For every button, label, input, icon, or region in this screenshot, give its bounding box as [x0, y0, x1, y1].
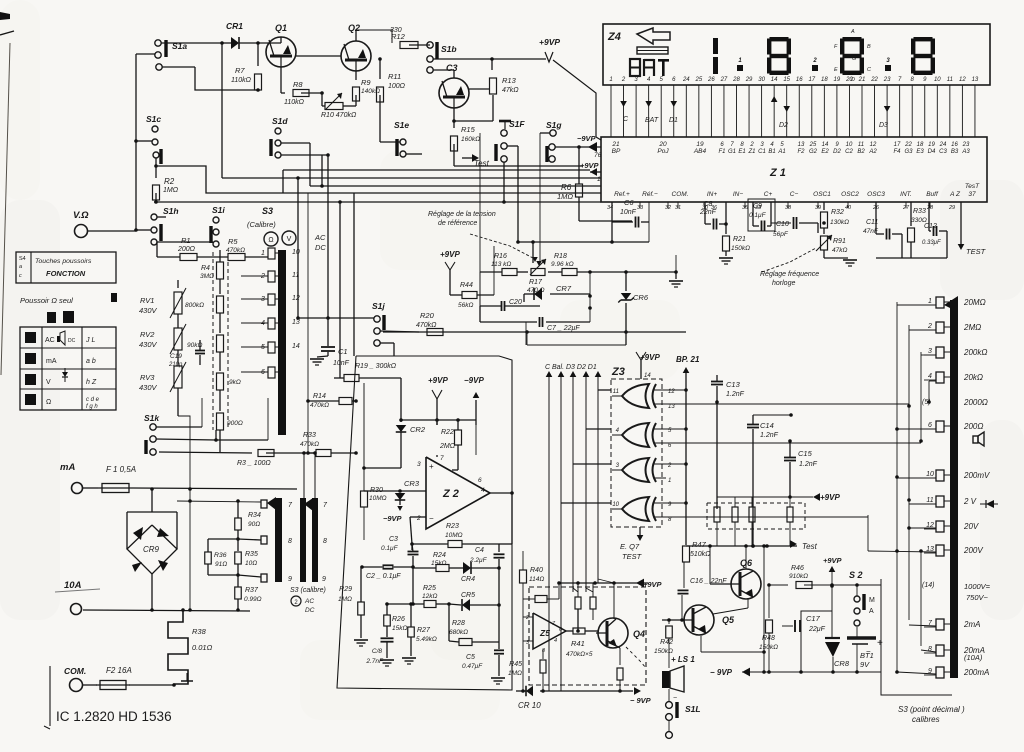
svg-text:20: 20	[658, 141, 667, 148]
svg-text:C14: C14	[760, 421, 774, 430]
svg-text:20: 20	[845, 77, 853, 83]
svg-text:R2: R2	[164, 177, 175, 186]
svg-text:8: 8	[288, 538, 292, 545]
svg-text:E. Q7: E. Q7	[620, 542, 640, 551]
svg-text:FONCTION: FONCTION	[46, 269, 86, 278]
svg-text:800kΩ: 800kΩ	[185, 302, 204, 309]
svg-text:R40: R40	[530, 567, 543, 574]
svg-text:R30: R30	[370, 487, 383, 494]
svg-text:R36: R36	[214, 552, 227, 559]
svg-text:19: 19	[696, 141, 704, 148]
svg-text:C15: C15	[798, 449, 813, 458]
svg-text:R38: R38	[192, 627, 207, 636]
svg-text:+: +	[429, 462, 434, 471]
svg-text:F 1 0,5A: F 1 0,5A	[106, 465, 136, 474]
svg-text:Touches poussoirs: Touches poussoirs	[35, 258, 92, 265]
svg-text:150kΩ: 150kΩ	[759, 644, 778, 651]
svg-text:BP: BP	[612, 148, 621, 155]
svg-text:114Ω: 114Ω	[529, 576, 544, 583]
svg-text:R33: R33	[303, 432, 316, 439]
svg-text:F4: F4	[893, 149, 901, 155]
svg-text:0.99Ω: 0.99Ω	[244, 596, 262, 603]
svg-text:Réglage fréquence: Réglage fréquence	[760, 271, 819, 278]
svg-text:26: 26	[707, 77, 715, 83]
svg-text:900Ω: 900Ω	[227, 420, 243, 427]
svg-text:R29: R29	[339, 586, 352, 593]
svg-text:7: 7	[440, 455, 444, 462]
svg-text:D3: D3	[879, 122, 888, 129]
svg-text:S1k: S1k	[144, 413, 160, 423]
svg-text:CR5: CR5	[461, 592, 475, 599]
svg-text:330: 330	[390, 27, 402, 34]
svg-text:Ref.+: Ref.+	[614, 191, 630, 198]
svg-text:2: 2	[927, 323, 932, 330]
svg-text:29: 29	[745, 77, 753, 83]
svg-text:(14): (14)	[922, 582, 934, 589]
svg-text:C/8: C/8	[372, 648, 383, 655]
svg-text:56kΩ: 56kΩ	[458, 302, 473, 309]
svg-text:12: 12	[292, 295, 300, 302]
svg-text:R44: R44	[460, 282, 473, 289]
svg-text:2mA: 2mA	[963, 620, 980, 629]
svg-text:17: 17	[808, 77, 815, 83]
svg-text:14: 14	[771, 77, 778, 83]
svg-text:R19 _ 300kΩ: R19 _ 300kΩ	[355, 363, 397, 370]
svg-text:IN+: IN+	[707, 191, 718, 198]
svg-text:C5: C5	[466, 654, 475, 661]
svg-text:1MΩ: 1MΩ	[508, 670, 522, 677]
svg-text:A: A	[850, 29, 855, 35]
svg-text:F1: F1	[718, 149, 725, 155]
svg-text:0.47μF: 0.47μF	[462, 663, 483, 670]
svg-text:200kΩ: 200kΩ	[963, 348, 987, 357]
svg-text:2: 2	[525, 615, 529, 621]
svg-text:AB4: AB4	[693, 148, 707, 155]
svg-text:140kΩ: 140kΩ	[361, 88, 380, 95]
svg-text:76: 76	[594, 152, 602, 159]
svg-text:C3: C3	[446, 63, 458, 73]
svg-text:+9VP: +9VP	[539, 37, 560, 47]
svg-text:−9VP: −9VP	[464, 376, 484, 385]
svg-text:R21: R21	[733, 236, 746, 243]
svg-text:9: 9	[322, 576, 326, 583]
svg-text:R22: R22	[441, 429, 454, 436]
svg-text:10Ω: 10Ω	[245, 560, 257, 567]
svg-text:C1: C1	[758, 149, 766, 155]
svg-text:0.01Ω: 0.01Ω	[192, 643, 213, 652]
svg-text:2MΩ: 2MΩ	[963, 323, 981, 332]
svg-text:11: 11	[292, 272, 299, 279]
svg-text:(10A): (10A)	[964, 653, 983, 662]
svg-text:c d e: c d e	[86, 397, 100, 403]
svg-text:D2: D2	[833, 149, 841, 155]
svg-text:C4: C4	[475, 547, 484, 554]
svg-text:S1g: S1g	[546, 120, 562, 130]
svg-text:AC: AC	[45, 337, 55, 344]
svg-text:30: 30	[758, 77, 765, 83]
svg-text:2 V: 2 V	[963, 497, 977, 506]
svg-text:18: 18	[917, 142, 924, 148]
svg-text:110kΩ: 110kΩ	[231, 77, 252, 84]
svg-text:100Ω: 100Ω	[388, 83, 406, 90]
svg-text:S4: S4	[19, 256, 26, 262]
svg-text:C1: C1	[338, 347, 348, 356]
svg-text:1.2nF: 1.2nF	[760, 432, 779, 439]
svg-text:Q5: Q5	[722, 615, 735, 625]
svg-text:20MΩ: 20MΩ	[963, 298, 986, 307]
svg-text:−: −	[673, 695, 677, 702]
svg-text:C9: C9	[753, 203, 762, 210]
svg-text:18: 18	[821, 77, 828, 83]
svg-text:10MΩ: 10MΩ	[445, 532, 463, 539]
svg-text:S1c: S1c	[146, 114, 161, 124]
svg-text:28: 28	[732, 77, 740, 83]
svg-text:+9VP: +9VP	[823, 556, 843, 565]
svg-text:Réf.−: Réf.−	[642, 191, 658, 198]
svg-text:G2: G2	[809, 149, 818, 155]
svg-text:R9: R9	[361, 78, 371, 87]
svg-text:5: 5	[261, 344, 265, 351]
svg-text:E: E	[834, 67, 838, 73]
svg-text:Z3: Z3	[611, 366, 625, 378]
svg-text:110kΩ: 110kΩ	[284, 99, 305, 106]
svg-text:29: 29	[948, 205, 955, 211]
svg-text:R25: R25	[423, 585, 436, 592]
svg-text:13: 13	[798, 142, 805, 148]
svg-text:−9VP: −9VP	[577, 134, 597, 143]
svg-text:S3: S3	[262, 206, 273, 216]
svg-text:calibres: calibres	[912, 715, 940, 724]
svg-text:DC: DC	[68, 338, 76, 344]
svg-text:CR4: CR4	[461, 576, 475, 583]
svg-text:C2: C2	[845, 149, 853, 155]
svg-text:14: 14	[292, 343, 300, 350]
svg-text:S3 (calibre): S3 (calibre)	[290, 587, 326, 594]
svg-text:OSC2: OSC2	[841, 191, 859, 198]
svg-text:R13: R13	[502, 76, 517, 85]
svg-text:CR8: CR8	[834, 659, 850, 668]
svg-text:3: 3	[261, 296, 265, 303]
svg-text:COM.: COM.	[672, 191, 689, 198]
svg-text:4: 4	[554, 638, 557, 644]
svg-text:S1L: S1L	[685, 704, 701, 714]
svg-text:910kΩ: 910kΩ	[789, 573, 808, 580]
svg-text:4: 4	[928, 373, 932, 380]
svg-text:R41: R41	[571, 639, 585, 648]
svg-text:A: A	[869, 608, 874, 615]
svg-text:C Bal. D3 D2 D1: C Bal. D3 D2 D1	[545, 364, 597, 371]
svg-text:V.Ω: V.Ω	[73, 210, 89, 221]
svg-text:−: −	[429, 514, 434, 523]
svg-text:C3: C3	[939, 149, 947, 155]
svg-text:2000Ω: 2000Ω	[963, 398, 988, 407]
svg-text:2: 2	[260, 273, 265, 280]
svg-text:23: 23	[883, 77, 891, 83]
svg-text:40: 40	[845, 205, 852, 211]
svg-text:R27: R27	[417, 627, 431, 634]
svg-text:C3: C3	[389, 536, 398, 543]
svg-text:750V~: 750V~	[966, 593, 989, 602]
svg-text:BP. 21: BP. 21	[676, 355, 700, 364]
svg-text:1MΩ: 1MΩ	[557, 192, 573, 201]
svg-text:2: 2	[749, 142, 754, 148]
svg-text:2: 2	[416, 515, 421, 522]
svg-text:S1d: S1d	[272, 116, 288, 126]
svg-text:Buff: Buff	[926, 191, 939, 198]
svg-text:TEST: TEST	[622, 552, 643, 561]
svg-text:Z 1: Z 1	[769, 167, 786, 179]
svg-text:R17: R17	[529, 279, 543, 286]
svg-text:S3 (point décimal ): S3 (point décimal )	[898, 705, 965, 714]
svg-text:10: 10	[292, 249, 300, 256]
svg-text:9.96 kΩ: 9.96 kΩ	[551, 261, 574, 268]
svg-text:0.33μF: 0.33μF	[922, 240, 941, 246]
svg-text:+: +	[877, 638, 883, 649]
svg-text:430V: 430V	[139, 306, 158, 315]
svg-text:430V: 430V	[139, 383, 158, 392]
svg-text:0.1μF: 0.1μF	[381, 545, 399, 552]
svg-text:470kΩ×5: 470kΩ×5	[566, 651, 593, 658]
svg-text:470kΩ: 470kΩ	[310, 402, 329, 409]
svg-text:16: 16	[951, 142, 958, 148]
svg-text:47kΩ: 47kΩ	[502, 87, 519, 94]
svg-text:BT1: BT1	[860, 651, 874, 660]
svg-text:9: 9	[288, 576, 292, 583]
svg-text:C−: C−	[790, 191, 799, 198]
svg-text:14: 14	[644, 373, 651, 379]
svg-text:13: 13	[972, 77, 979, 83]
svg-text:G: G	[852, 56, 857, 62]
svg-text:R16: R16	[494, 253, 507, 260]
svg-text:a: a	[19, 264, 22, 270]
svg-text:E2: E2	[821, 149, 829, 155]
svg-text:1: 1	[261, 250, 265, 257]
svg-text:Z5: Z5	[539, 628, 550, 638]
svg-text:10nF: 10nF	[333, 360, 350, 367]
svg-text:S1e: S1e	[394, 120, 409, 130]
svg-text:E1: E1	[738, 149, 745, 155]
svg-text:c: c	[19, 273, 22, 279]
svg-text:14: 14	[822, 142, 829, 148]
svg-text:510kΩ: 510kΩ	[690, 551, 711, 558]
svg-text:B2: B2	[857, 149, 865, 155]
svg-text:R32: R32	[831, 209, 844, 216]
svg-text:0.1μF: 0.1μF	[749, 212, 767, 219]
svg-text:RV1: RV1	[140, 296, 154, 305]
svg-text:F2 16A: F2 16A	[106, 666, 132, 675]
svg-text:R15: R15	[461, 125, 476, 134]
svg-text:D4: D4	[928, 149, 936, 155]
svg-text:R11: R11	[388, 72, 401, 81]
svg-text:+9VP: +9VP	[643, 580, 663, 589]
svg-text:90Ω: 90Ω	[248, 521, 260, 528]
svg-text:R8: R8	[293, 80, 303, 89]
svg-text:C7 _ 22μF: C7 _ 22μF	[547, 325, 580, 332]
svg-text:+9VP: +9VP	[428, 376, 448, 385]
svg-text:R14: R14	[313, 393, 326, 400]
svg-text:OSC1: OSC1	[813, 191, 831, 198]
svg-text:200mV: 200mV	[963, 471, 990, 480]
svg-text:R7: R7	[235, 66, 245, 75]
svg-text:10: 10	[926, 471, 934, 478]
svg-text:200V: 200V	[963, 546, 983, 555]
svg-text:S 2: S 2	[849, 570, 863, 580]
svg-text:CR3: CR3	[404, 479, 420, 488]
svg-text:F2: F2	[797, 149, 805, 155]
svg-text:200Ω: 200Ω	[963, 422, 983, 431]
svg-text:Test: Test	[802, 542, 818, 551]
svg-text:150kΩ: 150kΩ	[731, 245, 750, 252]
svg-text:1MΩ: 1MΩ	[338, 596, 352, 603]
svg-text:47kΩ: 47kΩ	[832, 247, 847, 254]
svg-text:R18: R18	[554, 253, 567, 260]
svg-text:11: 11	[926, 497, 933, 504]
svg-text:R20: R20	[420, 311, 435, 320]
svg-text:37: 37	[968, 191, 976, 198]
svg-text:17: 17	[894, 142, 901, 148]
svg-text:Ω: Ω	[46, 399, 51, 406]
svg-text:TEST: TEST	[966, 247, 987, 256]
svg-text:V: V	[287, 236, 292, 243]
svg-text:1: 1	[597, 176, 601, 183]
svg-text:10: 10	[846, 142, 853, 148]
svg-text:IC 1.2820 HD 1536: IC 1.2820 HD 1536	[56, 709, 172, 724]
svg-text:1MΩ: 1MΩ	[163, 187, 179, 194]
svg-text:1000V=: 1000V=	[964, 582, 991, 591]
svg-text:4: 4	[481, 487, 485, 494]
svg-text:R46: R46	[791, 565, 804, 572]
svg-text:R5: R5	[228, 237, 238, 246]
svg-text:160kΩ: 160kΩ	[461, 136, 480, 143]
svg-text:C12: C12	[924, 223, 937, 230]
svg-text:130kΩ: 130kΩ	[830, 219, 849, 226]
svg-text:91Ω: 91Ω	[215, 561, 227, 568]
svg-text:C20: C20	[509, 299, 522, 306]
svg-text:R33: R33	[913, 208, 926, 215]
svg-text:R91: R91	[833, 238, 846, 245]
svg-text:CR6: CR6	[633, 293, 649, 302]
svg-text:mA: mA	[60, 462, 75, 473]
svg-text:R23: R23	[446, 523, 459, 530]
svg-text:INT.: INT.	[900, 191, 912, 198]
svg-text:33: 33	[637, 205, 644, 211]
svg-text:Poussoir Ω seul: Poussoir Ω seul	[20, 296, 73, 305]
svg-text:1: 1	[609, 77, 612, 83]
svg-text:PoJ: PoJ	[657, 148, 669, 155]
svg-text:200Ω: 200Ω	[177, 246, 196, 253]
svg-text:IN−: IN−	[733, 191, 744, 198]
svg-text:Q4: Q4	[633, 629, 645, 639]
svg-text:R47: R47	[692, 540, 707, 549]
svg-text:4: 4	[261, 320, 265, 327]
svg-text:mA: mA	[46, 358, 57, 365]
svg-text:3: 3	[417, 461, 421, 468]
svg-text:R45: R45	[509, 661, 522, 668]
svg-text:AC: AC	[314, 233, 326, 242]
svg-text:21: 21	[858, 77, 866, 83]
svg-text:D1: D1	[669, 117, 678, 124]
svg-text:C10: C10	[776, 221, 789, 228]
svg-text:2: 2	[812, 58, 817, 64]
svg-text:12: 12	[870, 142, 877, 148]
svg-text:D2: D2	[779, 122, 788, 129]
svg-text:2MΩ: 2MΩ	[439, 443, 456, 450]
svg-text:8: 8	[928, 646, 932, 653]
svg-text:5.49kΩ: 5.49kΩ	[416, 636, 437, 643]
svg-text:(Calibre): (Calibre)	[247, 220, 276, 229]
svg-text:9kΩ: 9kΩ	[229, 379, 241, 386]
svg-text:V: V	[46, 379, 51, 386]
svg-text:10: 10	[612, 502, 619, 508]
svg-text:10nF: 10nF	[620, 209, 637, 216]
svg-text:R4: R4	[201, 265, 210, 272]
svg-text:23: 23	[962, 142, 970, 148]
svg-text:−9VP: −9VP	[383, 514, 403, 523]
svg-text:RV3: RV3	[140, 373, 155, 382]
svg-text:10A: 10A	[64, 580, 82, 591]
svg-text:A3: A3	[961, 149, 970, 155]
svg-text:19: 19	[928, 142, 935, 148]
svg-text:Q1: Q1	[275, 23, 287, 33]
svg-text:22: 22	[904, 142, 912, 148]
svg-text:de référence: de référence	[438, 220, 477, 227]
svg-text:DC: DC	[315, 243, 326, 252]
svg-text:Ω: Ω	[268, 237, 273, 244]
svg-text:G1: G1	[728, 149, 736, 155]
svg-text:2: 2	[621, 77, 626, 83]
svg-text:15: 15	[783, 77, 790, 83]
svg-text:CR 10: CR 10	[518, 701, 541, 710]
svg-text:15kΩ: 15kΩ	[392, 625, 407, 632]
svg-text:1: 1	[668, 478, 671, 484]
svg-text:6: 6	[928, 422, 932, 429]
svg-text:R1: R1	[181, 236, 191, 245]
svg-text:C: C	[867, 67, 871, 73]
svg-text:22nF: 22nF	[699, 209, 717, 216]
svg-text:25: 25	[695, 77, 703, 83]
svg-text:Z4: Z4	[607, 31, 621, 43]
svg-text:M: M	[869, 597, 875, 604]
svg-text:12kΩ: 12kΩ	[422, 593, 437, 600]
svg-text:11: 11	[858, 142, 864, 148]
svg-text:Q2: Q2	[348, 23, 360, 33]
svg-text:C17: C17	[806, 614, 821, 623]
svg-text:21: 21	[611, 141, 620, 148]
svg-text:S1i: S1i	[212, 205, 225, 215]
svg-text:9V: 9V	[860, 660, 870, 669]
svg-text:R42: R42	[660, 639, 673, 646]
svg-text:R28: R28	[452, 620, 465, 627]
svg-text:1: 1	[928, 298, 932, 305]
svg-text:Z1: Z1	[747, 149, 755, 155]
svg-text:3: 3	[928, 348, 932, 355]
svg-text:25: 25	[809, 142, 817, 148]
svg-text:3MΩ: 3MΩ	[200, 273, 214, 280]
svg-text:24: 24	[682, 77, 690, 83]
svg-text:B: B	[867, 44, 871, 50]
svg-text:S1F: S1F	[509, 119, 525, 129]
svg-text:20kΩ: 20kΩ	[963, 373, 983, 382]
svg-text:C19: C19	[170, 353, 182, 360]
svg-text:680kΩ: 680kΩ	[449, 629, 468, 636]
svg-text:C6: C6	[624, 198, 634, 207]
svg-text:20V: 20V	[963, 522, 979, 531]
svg-text:− 9VP: − 9VP	[710, 668, 733, 677]
svg-text:B3: B3	[951, 149, 959, 155]
svg-text:R6: R6	[561, 183, 572, 192]
svg-text:R26: R26	[392, 616, 405, 623]
svg-text:38: 38	[785, 205, 792, 211]
